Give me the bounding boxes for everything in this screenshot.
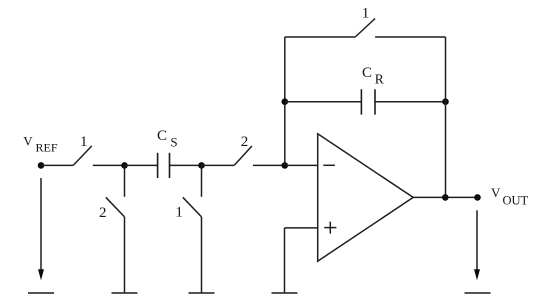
wire <box>284 228 286 293</box>
op-amp U1 <box>318 134 414 261</box>
capacitor CR <box>361 89 375 114</box>
svg-text:V: V <box>23 133 33 148</box>
switch S2b (phase 2) <box>106 197 125 217</box>
ground <box>28 292 54 294</box>
svg-text:C: C <box>362 65 372 81</box>
wire <box>375 101 446 103</box>
svg-text:V: V <box>491 185 501 200</box>
svg-text:2: 2 <box>241 134 249 150</box>
wire (VOUT arrow to ground) <box>476 210 478 270</box>
wire (feedback left vertical) <box>284 37 286 165</box>
node N5 <box>442 194 449 201</box>
label CR <box>362 65 384 86</box>
node N1 (VREF input) <box>38 162 45 169</box>
svg-text:1: 1 <box>80 134 88 150</box>
capacitor CS <box>158 153 170 178</box>
svg-text:C: C <box>157 128 167 144</box>
wire <box>285 164 318 166</box>
svg-text:S: S <box>170 135 177 150</box>
wire <box>170 164 202 166</box>
svg-text:1: 1 <box>175 205 183 221</box>
node (CR left) <box>282 98 289 105</box>
wire <box>253 164 285 166</box>
node (CR right) <box>442 98 449 105</box>
arrowhead <box>474 269 480 280</box>
switch S1b (phase 1) <box>355 19 375 38</box>
wire <box>124 165 126 196</box>
wire <box>93 164 125 166</box>
ground <box>112 292 138 294</box>
node N6 (VOUT) <box>474 194 481 201</box>
svg-text:OUT: OUT <box>503 193 529 207</box>
ground <box>465 292 491 294</box>
node N2 <box>121 162 128 169</box>
wire (feedback right vertical) <box>445 37 447 197</box>
wire (output) <box>413 196 478 198</box>
wire (top feedback) <box>285 36 355 38</box>
wire (VREF arrow to ground) <box>40 178 42 271</box>
svg-text:REF: REF <box>36 141 58 155</box>
node N4 (inverting input) <box>282 162 289 169</box>
switch S2a (phase 2) <box>234 146 252 165</box>
ground <box>272 292 298 294</box>
label CS <box>157 128 178 149</box>
wire <box>201 217 203 293</box>
wire <box>285 101 362 103</box>
svg-text:R: R <box>375 71 384 86</box>
label VREF <box>23 133 58 154</box>
arrowhead <box>38 269 44 280</box>
wire (non-inverting input) <box>285 227 318 229</box>
svg-text:2: 2 <box>99 205 107 221</box>
wire <box>124 217 126 293</box>
label VOUT <box>491 185 529 207</box>
wire <box>41 164 73 166</box>
switch S1c (phase 1) <box>183 197 202 217</box>
node N3 <box>198 162 205 169</box>
wire <box>375 36 445 38</box>
svg-text:1: 1 <box>362 6 370 22</box>
wire <box>125 164 158 166</box>
switch S1a (phase 1) <box>73 146 92 166</box>
ground <box>189 292 215 294</box>
wire <box>202 164 235 166</box>
wire <box>201 165 203 196</box>
